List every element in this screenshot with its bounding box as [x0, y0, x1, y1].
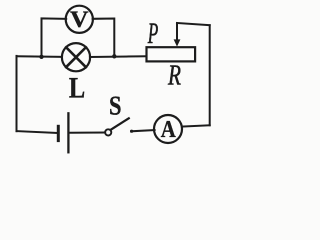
battery cell: long plate (positive) [67, 113, 69, 152]
rheostat R (resistor box) [147, 47, 196, 61]
lamp L cross stroke 2 [66, 47, 86, 67]
switch S pivot [105, 129, 111, 135]
wire: switch contact to ammeter left terminal [131, 130, 154, 131]
svg-text:L: L [69, 72, 85, 105]
wire: voltmeter branch, up-left then to voltmeter [42, 18, 67, 56]
wire: left rail vertical [16, 56, 18, 131]
svg-text:S: S [109, 91, 122, 121]
wire: battery positive to switch pivot [70, 132, 106, 134]
switch fixed contact tick [130, 130, 133, 133]
node: voltmeter tap junction (right) [112, 54, 116, 58]
battery cell: short plate (negative) [57, 126, 60, 140]
wire: lamp row, left rail to lamp left terminal [17, 55, 63, 58]
wire: slider arrow to right rail (top right) [177, 23, 210, 25]
lamp L (circle) [62, 43, 90, 71]
wire: voltmeter branch, right then down to junction [93, 19, 115, 57]
wire: bottom left corner to battery negative [17, 131, 58, 133]
svg-text:A: A [161, 116, 176, 143]
node: voltmeter tap junction (left) [39, 55, 43, 59]
wire: right rail vertical [209, 25, 211, 125]
wire: right rail to ammeter right terminal [182, 125, 210, 126]
svg-text:V: V [70, 7, 89, 33]
lamp L cross stroke 1 [66, 47, 86, 67]
rheostat slider arrow [176, 23, 178, 41]
ammeter A (circle) [154, 115, 182, 143]
switch S lever [111, 118, 129, 129]
voltmeter V (circle) [66, 6, 93, 33]
svg-text:P: P [147, 17, 158, 50]
wire: lamp right terminal to rheostat left terminal [90, 55, 146, 58]
svg-text:R: R [167, 60, 181, 92]
